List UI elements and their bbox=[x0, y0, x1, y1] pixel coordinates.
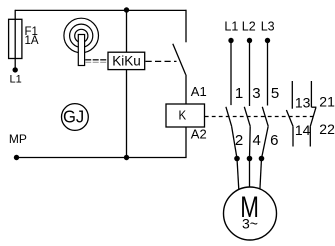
wire motor lead1 bbox=[237, 159, 239, 190]
svg-text:L1: L1 bbox=[224, 19, 238, 33]
terminal dot L1 supply bbox=[13, 67, 18, 72]
GJ circle bbox=[62, 104, 89, 131]
mechanical link key to KiKu upper dash bbox=[85, 59, 108, 61]
svg-text:L1: L1 bbox=[10, 74, 22, 86]
aux 21-22 blade NC bbox=[310, 108, 316, 127]
key switch shaft bbox=[78, 35, 84, 66]
svg-text:L3: L3 bbox=[261, 19, 275, 33]
svg-text:A2: A2 bbox=[191, 127, 207, 142]
svg-text:1: 1 bbox=[235, 85, 243, 102]
wire pole2 lower bbox=[249, 126, 252, 158]
svg-text:22: 22 bbox=[319, 121, 335, 137]
svg-text:K: K bbox=[178, 108, 186, 123]
aux 13-14 blade bbox=[286, 110, 293, 126]
aux contact 14 bottom bbox=[292, 126, 294, 146]
wire pole2 top bbox=[249, 41, 251, 107]
wire pole3 lower bbox=[262, 126, 269, 158]
key switch middle circle bbox=[70, 24, 93, 47]
junction dot motor phase1 bbox=[234, 156, 240, 162]
junction dot motor phase2 bbox=[247, 156, 253, 162]
aux 21-22 seat bar bbox=[311, 106, 316, 108]
svg-text:1A: 1A bbox=[25, 35, 39, 47]
svg-text:13: 13 bbox=[295, 94, 311, 110]
svg-text:6: 6 bbox=[270, 132, 278, 149]
pole2 blade bbox=[244, 107, 250, 126]
dashed linkage coil to contacts bbox=[205, 116, 313, 118]
fuse F1 bbox=[9, 19, 22, 58]
coil K box bbox=[166, 104, 205, 127]
svg-text:GJ: GJ bbox=[63, 107, 84, 126]
svg-text:5: 5 bbox=[271, 85, 279, 102]
wire pole3 top bbox=[267, 41, 269, 106]
wire pole1 lower bbox=[232, 126, 237, 158]
svg-text:MP: MP bbox=[9, 132, 27, 146]
svg-text:4: 4 bbox=[253, 132, 261, 149]
motor M1 circle bbox=[224, 187, 277, 240]
aux contact 22 bottom bbox=[309, 126, 311, 146]
svg-text:L2: L2 bbox=[242, 19, 256, 33]
terminal dot MP bbox=[14, 155, 19, 160]
contact blade control NO bbox=[173, 44, 186, 75]
svg-text:2: 2 bbox=[235, 132, 243, 149]
wire contact top terminal bbox=[185, 10, 187, 43]
wire motor lead3 bbox=[260, 159, 262, 190]
key switch inner circle bbox=[75, 29, 88, 42]
wire coil A2 down and left to MP bbox=[17, 127, 187, 158]
wire motor lead2 bbox=[249, 159, 251, 188]
terminal dot L2 phase bbox=[247, 38, 252, 43]
wire KiKu vertical branch bbox=[126, 10, 128, 158]
aux contact 13 top bbox=[291, 81, 293, 109]
mechanical link key to KiKu lower dash bbox=[85, 61, 108, 63]
junction dot motor phase3 bbox=[259, 156, 265, 162]
svg-text:14: 14 bbox=[295, 122, 311, 138]
terminal dot L1 phase bbox=[228, 38, 233, 43]
wire fuse vertical bbox=[14, 10, 16, 70]
aux contact 21 top bbox=[310, 81, 312, 107]
wire top horizontal L1 bus bbox=[15, 9, 186, 11]
terminal dot L3 phase bbox=[265, 38, 270, 43]
junction dot bottom bus bbox=[124, 155, 129, 160]
svg-text:21: 21 bbox=[319, 94, 335, 110]
junction dot top bus bbox=[124, 7, 129, 12]
pole1 blade bbox=[226, 107, 232, 126]
svg-text:A1: A1 bbox=[191, 84, 207, 99]
key switch outer circle bbox=[64, 18, 99, 53]
svg-text:3~: 3~ bbox=[242, 216, 258, 232]
pole3 blade bbox=[262, 107, 268, 126]
svg-text:3: 3 bbox=[252, 85, 260, 102]
wire blade to coil A1 bbox=[185, 75, 187, 104]
wire pole1 top bbox=[230, 41, 232, 106]
KiKu box bbox=[108, 52, 145, 69]
svg-text:KiKu: KiKu bbox=[112, 53, 141, 68]
dashed link KiKu to contact blade bbox=[146, 60, 177, 62]
